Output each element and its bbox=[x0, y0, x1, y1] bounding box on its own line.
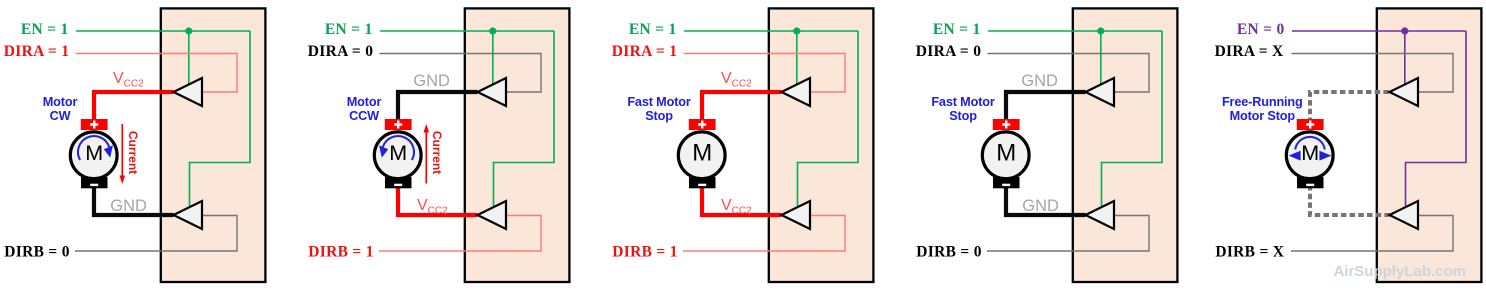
motor M5 - terminal bbox=[1297, 177, 1324, 188]
rotation arrows (free-running, both ways) bbox=[1295, 137, 1325, 150]
svg-text:DIRB = 0: DIRB = 0 bbox=[4, 244, 70, 261]
motor M3 body bbox=[678, 132, 725, 179]
svg-text:GND: GND bbox=[1022, 197, 1059, 215]
motor M3 + terminal bbox=[689, 119, 716, 130]
svg-text:M: M bbox=[389, 141, 407, 165]
wire EN right drop to buffer B enable bbox=[1102, 31, 1163, 206]
svg-text:Current: Current bbox=[126, 131, 140, 174]
svg-text:DIRA = 0: DIRA = 0 bbox=[308, 43, 374, 60]
svg-text:GND: GND bbox=[110, 197, 147, 215]
svg-text:EN = 1: EN = 1 bbox=[933, 21, 981, 38]
junction EN node bbox=[489, 27, 496, 34]
wire EN right drop to buffer B enable bbox=[798, 31, 859, 206]
motor M1 - terminal bbox=[81, 177, 108, 188]
wire EN drop to buffer A enable bbox=[188, 31, 190, 86]
svg-text:DIRB = 1: DIRB = 1 bbox=[308, 244, 374, 261]
svg-text:EN = 0: EN = 0 bbox=[1237, 21, 1285, 38]
svg-text:Motor: Motor bbox=[347, 95, 382, 109]
wire motor - terminal to buffer B output bbox=[702, 185, 782, 215]
svg-text:AirSupplyLab.com: AirSupplyLab.com bbox=[1333, 263, 1466, 280]
svg-text:Free-Running: Free-Running bbox=[1222, 95, 1303, 109]
svg-text:EN = 1: EN = 1 bbox=[629, 21, 677, 38]
svg-text:DIRA = X: DIRA = X bbox=[1215, 43, 1284, 60]
buffer U3B bbox=[782, 201, 811, 229]
svg-text:Current: Current bbox=[430, 131, 444, 174]
wire EN horizontal bbox=[380, 30, 554, 32]
wire buffer A output to motor + terminal bbox=[702, 92, 782, 123]
current direction arrow (down) bbox=[121, 124, 123, 176]
wire EN right drop to buffer B enable bbox=[1406, 31, 1467, 206]
buffer U3A bbox=[782, 78, 811, 106]
wire buffer A output to motor + terminal bbox=[398, 92, 478, 123]
motor M4 + terminal bbox=[993, 119, 1020, 130]
driver block U1 bbox=[161, 8, 266, 282]
wire EN drop to buffer A enable bbox=[796, 31, 798, 86]
svg-text:DIRA = 1: DIRA = 1 bbox=[612, 43, 678, 60]
buffer U5B bbox=[1390, 201, 1419, 229]
wire DIRA to buffer A input bbox=[380, 54, 542, 93]
svg-text:DIRA = 0: DIRA = 0 bbox=[916, 43, 982, 60]
svg-text:M: M bbox=[692, 140, 712, 167]
driver block U3 bbox=[769, 8, 874, 282]
driver block U2 bbox=[465, 8, 570, 282]
svg-text:M: M bbox=[85, 141, 103, 165]
wire EN right drop to buffer B enable bbox=[494, 31, 555, 206]
buffer U4B bbox=[1086, 201, 1115, 229]
wire EN horizontal bbox=[988, 30, 1162, 32]
wire motor - terminal to buffer B output bbox=[1006, 185, 1086, 215]
wire DIRA to buffer A input bbox=[988, 54, 1150, 93]
svg-text:Motor Stop: Motor Stop bbox=[1230, 109, 1296, 123]
wire EN drop to buffer A enable bbox=[492, 31, 494, 86]
wire buffer A output to motor + terminal bbox=[94, 92, 174, 123]
wire DIRA to buffer A input bbox=[1292, 54, 1454, 93]
svg-text:DIRA = 1: DIRA = 1 bbox=[4, 43, 70, 60]
svg-text:DIRB = 0: DIRB = 0 bbox=[916, 244, 982, 261]
motor M2 - terminal bbox=[385, 177, 412, 188]
svg-text:EN = 1: EN = 1 bbox=[325, 21, 373, 38]
junction EN node bbox=[793, 27, 800, 34]
wire DIRB to buffer B input bbox=[1291, 216, 1453, 252]
wire DIRB to buffer B input bbox=[683, 216, 845, 252]
motor M2 + terminal bbox=[385, 119, 412, 130]
motor M1 + terminal bbox=[81, 119, 108, 130]
rotation arrow CCW bbox=[383, 136, 414, 160]
wire motor - terminal to buffer B output bbox=[1310, 185, 1390, 215]
wire buffer A output to motor + terminal bbox=[1006, 92, 1086, 123]
motor M2 body bbox=[374, 132, 421, 179]
rotation arrow CW bbox=[78, 136, 109, 160]
motor M1 body bbox=[70, 132, 117, 179]
wire motor - terminal to buffer B output bbox=[398, 185, 478, 215]
motor M3 - terminal bbox=[689, 177, 716, 188]
junction EN node bbox=[1401, 27, 1408, 34]
motor M5 + terminal bbox=[1297, 119, 1324, 130]
wire EN drop to buffer A enable bbox=[1100, 31, 1102, 86]
wire EN horizontal bbox=[76, 30, 250, 32]
svg-text:M: M bbox=[996, 140, 1016, 167]
driver block U5 bbox=[1377, 8, 1482, 282]
svg-text:Stop: Stop bbox=[645, 109, 673, 123]
svg-text:Motor: Motor bbox=[43, 95, 78, 109]
buffer U2A bbox=[478, 78, 507, 106]
wire DIRA to buffer A input bbox=[684, 54, 846, 93]
svg-text:EN = 1: EN = 1 bbox=[21, 21, 69, 38]
svg-text:GND: GND bbox=[1021, 72, 1058, 90]
wire DIRB to buffer B input bbox=[379, 216, 541, 252]
wire motor - terminal to buffer B output bbox=[94, 185, 174, 215]
svg-text:Fast Motor: Fast Motor bbox=[627, 95, 691, 109]
wire EN horizontal bbox=[684, 30, 858, 32]
wire DIRA to buffer A input bbox=[76, 54, 238, 93]
buffer U4A bbox=[1086, 78, 1115, 106]
svg-text:CW: CW bbox=[50, 109, 71, 123]
wire DIRB to buffer B input bbox=[987, 216, 1149, 252]
junction EN node bbox=[185, 27, 192, 34]
buffer U2B bbox=[478, 201, 507, 229]
buffer U1B bbox=[174, 201, 203, 229]
svg-text:Stop: Stop bbox=[949, 109, 977, 123]
motor M4 body bbox=[982, 132, 1029, 179]
motor M5 body bbox=[1286, 132, 1333, 179]
buffer U5A bbox=[1390, 78, 1419, 106]
wire DIRB to buffer B input bbox=[75, 216, 237, 252]
current direction arrow (up) bbox=[425, 132, 427, 184]
svg-text:DIRB = X: DIRB = X bbox=[1215, 244, 1284, 261]
wire EN drop to buffer A enable bbox=[1404, 31, 1406, 86]
wire EN right drop to buffer B enable bbox=[190, 31, 251, 206]
svg-text:Fast Motor: Fast Motor bbox=[931, 95, 995, 109]
wire EN horizontal bbox=[1292, 30, 1466, 32]
svg-text:CCW: CCW bbox=[349, 109, 379, 123]
motor M4 - terminal bbox=[993, 177, 1020, 188]
svg-text:GND: GND bbox=[413, 72, 450, 90]
svg-text:M: M bbox=[1301, 141, 1319, 165]
buffer U1A bbox=[174, 78, 203, 106]
driver block U4 bbox=[1073, 8, 1178, 282]
wire buffer A output to motor + terminal bbox=[1310, 92, 1390, 123]
svg-text:DIRB = 1: DIRB = 1 bbox=[612, 244, 678, 261]
junction EN node bbox=[1097, 27, 1104, 34]
